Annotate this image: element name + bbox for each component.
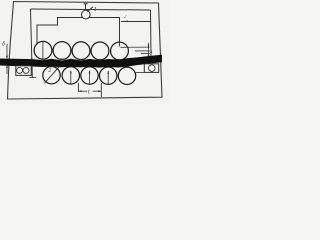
bottom roller 3 bbox=[81, 67, 98, 84]
bottom roller 1 leader slash bbox=[45, 66, 60, 83]
exit guide box bbox=[144, 64, 158, 73]
machine frame top line bbox=[31, 9, 151, 10]
top roller 1 bbox=[34, 41, 52, 59]
lambda dimension vertical with arrows bbox=[148, 43, 150, 57]
delta dimension upper arrow (left) bbox=[6, 44, 8, 58]
entry guide roller B bbox=[23, 67, 29, 73]
top roller 5 bbox=[111, 42, 129, 60]
delta dimension lower arrow (left) bbox=[6, 65, 8, 74]
roller cassette (stepped top beam) bbox=[37, 18, 120, 45]
right step line bbox=[121, 21, 151, 23]
t dimension right extension (to base) bbox=[100, 83, 102, 97]
paper background bbox=[0, 0, 171, 104]
strip (thick black sheet) bbox=[0, 55, 162, 68]
t dimension line bbox=[78, 90, 87, 92]
bottom roller 2 bbox=[62, 67, 79, 84]
bottom roller 5 bbox=[118, 67, 135, 84]
outer figure border bbox=[8, 2, 163, 100]
top roller 2 bbox=[53, 42, 71, 60]
bottom roller 1 bbox=[43, 67, 60, 84]
dial gauge U bbox=[82, 4, 94, 19]
t dimension left extension bbox=[77, 83, 79, 92]
arrow dot on step line bbox=[126, 20, 128, 22]
top roller 4 bbox=[91, 42, 109, 60]
cassette right edge over roller 5 bbox=[119, 41, 121, 47]
bottom roller 2 center line bbox=[70, 71, 72, 85]
entry guide box bbox=[16, 66, 31, 76]
bottom roller 4 bbox=[100, 67, 117, 84]
entry guide roller A bbox=[17, 67, 23, 73]
exit guide roller bbox=[149, 65, 156, 72]
machine frame left vertical lower part bbox=[31, 66, 33, 78]
bottom roller 4 center line bbox=[107, 71, 109, 85]
lambda dimension reference lines (right) bbox=[121, 46, 150, 48]
top roller 3 bbox=[72, 42, 90, 60]
machine frame left vertical bbox=[31, 9, 32, 60]
top roller 1 center line bbox=[42, 42, 44, 60]
scan noise texture bbox=[0, 0, 1, 1]
bottom roller 3 center line bbox=[89, 71, 91, 85]
machine frame right vertical bbox=[150, 10, 153, 57]
exit guide connection line bbox=[136, 71, 145, 73]
